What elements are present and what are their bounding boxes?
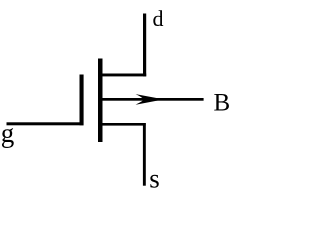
svg-text:g: g — [1, 118, 15, 148]
svg-text:s: s — [149, 163, 160, 193]
wire source stub — [102, 123, 146, 126]
arrowhead on body wire — [136, 94, 164, 105]
gate bar — [80, 75, 84, 126]
wire drain stub — [102, 74, 146, 77]
wire source vertical — [143, 123, 146, 186]
svg-text:B: B — [214, 90, 231, 117]
channel bar (MOSFET body plate) — [98, 59, 103, 143]
wire gate horizontal — [7, 122, 84, 125]
wire body horizontal to B — [102, 98, 204, 101]
svg-text:d: d — [153, 6, 164, 31]
wire drain vertical — [143, 14, 146, 77]
